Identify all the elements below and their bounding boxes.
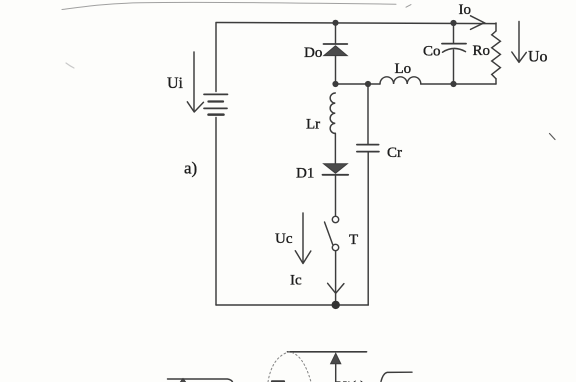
waveform b baseline mark bbox=[272, 380, 284, 382]
arrow Io head bbox=[471, 16, 485, 30]
arrow Ic head on wire bbox=[328, 283, 344, 293]
svg-text:Io: Io bbox=[459, 2, 472, 18]
wire Cr branch upper bbox=[367, 84, 369, 144]
wire Do cathode to node bbox=[335, 56, 337, 84]
node junction Co bottom bbox=[450, 81, 456, 87]
svg-text:Ic: Ic bbox=[290, 273, 302, 289]
svg-text:Ui: Ui bbox=[167, 75, 184, 92]
waveform b step edge bbox=[381, 372, 412, 381]
wire node to Cr branch bbox=[336, 83, 369, 85]
svg-text:Lr: Lr bbox=[306, 117, 320, 133]
capacitor Co bbox=[442, 44, 466, 53]
waveform a axis line left bbox=[168, 379, 233, 382]
waveform b arrow up bbox=[331, 353, 341, 382]
svg-text:Uc: Uc bbox=[275, 231, 293, 247]
wire Lr to D1 bbox=[334, 133, 336, 163]
svg-text:T: T bbox=[349, 232, 358, 248]
svg-text:a): a) bbox=[184, 159, 197, 178]
scan speck top right bbox=[406, 5, 411, 8]
wire right rail bottom stub bbox=[495, 79, 497, 84]
wire switch to bottom node bbox=[335, 251, 337, 304]
wire Co stub lower bbox=[453, 50, 455, 84]
battery Ui plates bbox=[204, 94, 228, 114]
arrow Uc bbox=[295, 213, 311, 264]
waveform b axis line bbox=[288, 351, 367, 353]
resistor Ro bbox=[492, 31, 501, 79]
inductor Lo bbox=[380, 77, 421, 84]
wire Lo to right rail bbox=[421, 83, 496, 85]
svg-text:Cr: Cr bbox=[387, 145, 402, 161]
node junction below Do bbox=[332, 81, 338, 87]
wire to Lo bbox=[368, 83, 380, 85]
node junction top-left of Do bbox=[332, 20, 338, 26]
capacitor Cr bbox=[357, 145, 379, 152]
svg-text:Co: Co bbox=[423, 44, 441, 60]
waveform b dashed hump bbox=[268, 352, 311, 382]
wire Co stub upper bbox=[453, 23, 455, 43]
wire bottom rail bbox=[216, 304, 368, 306]
inductor Lr bbox=[330, 93, 335, 133]
wire Do anode stub bbox=[335, 23, 337, 44]
node junction bottom bbox=[332, 301, 340, 309]
svg-text:Do: Do bbox=[304, 45, 322, 61]
switch T bbox=[325, 216, 339, 250]
wire left rail lower bbox=[215, 118, 217, 306]
svg-text:Lo: Lo bbox=[395, 61, 412, 77]
wire right rail top stub bbox=[495, 23, 497, 31]
wire left rail upper bbox=[215, 23, 217, 92]
waveform a arrow tip bbox=[178, 379, 188, 382]
svg-text:Ro: Ro bbox=[473, 43, 491, 59]
diode Do bbox=[324, 44, 348, 56]
wire Cr branch lower bbox=[367, 152, 369, 305]
svg-text:D1: D1 bbox=[296, 166, 314, 182]
wire D1 to switch bbox=[335, 175, 337, 216]
arrow Ui bbox=[187, 52, 203, 112]
scan speck right bbox=[550, 134, 556, 140]
diode D1 bbox=[323, 164, 349, 175]
scan artifact squiggle top bbox=[62, 2, 396, 9]
wire top rail bbox=[216, 23, 496, 24]
node junction Co top bbox=[450, 20, 456, 26]
arrow Uo bbox=[512, 22, 527, 63]
svg-text:Uo: Uo bbox=[528, 49, 548, 66]
node junction Cr top bbox=[365, 81, 371, 87]
scan smudge left bbox=[66, 63, 74, 68]
